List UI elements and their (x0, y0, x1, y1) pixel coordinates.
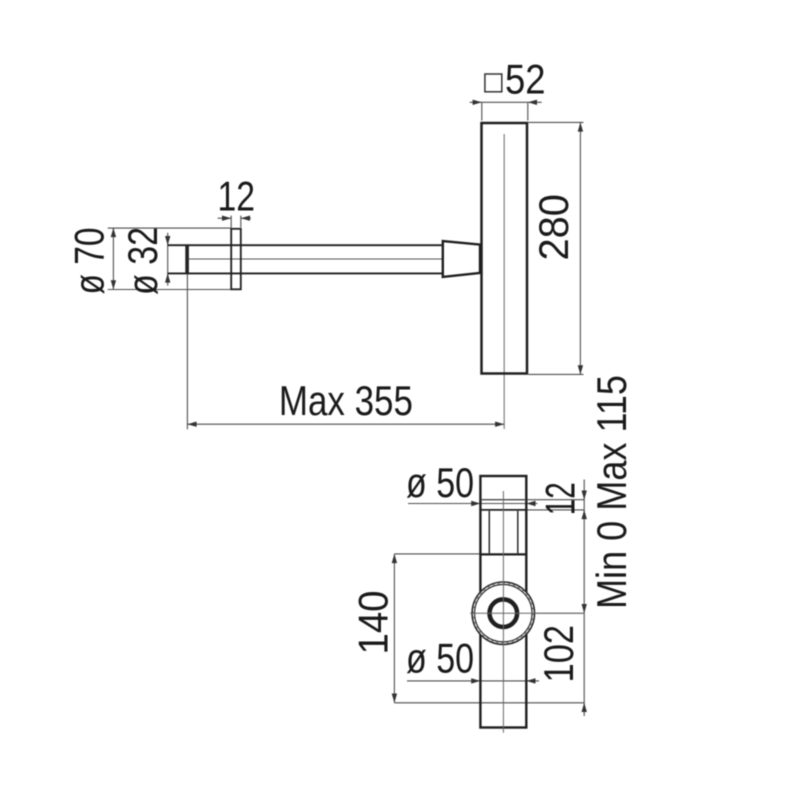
svg-text:102: 102 (535, 625, 582, 683)
svg-text:ø 50: ø 50 (406, 459, 474, 506)
svg-text:140: 140 (350, 591, 397, 655)
svg-text:12: 12 (537, 482, 584, 515)
svg-text:12: 12 (217, 173, 255, 220)
svg-text:ø 70: ø 70 (66, 228, 113, 295)
svg-text:ø 32: ø 32 (119, 227, 166, 295)
svg-text:280: 280 (530, 194, 577, 260)
svg-text:Min 0 Max 115: Min 0 Max 115 (588, 375, 635, 609)
svg-text:ø 50: ø 50 (406, 635, 474, 682)
svg-text:Max 355: Max 355 (279, 377, 413, 424)
svg-text:52: 52 (505, 56, 546, 103)
